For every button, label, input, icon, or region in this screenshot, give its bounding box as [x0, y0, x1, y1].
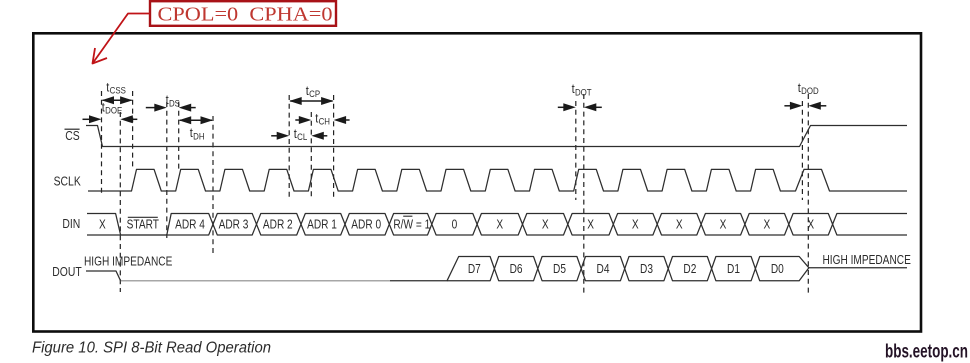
DIN low single line during START (faded in scan)	[121, 234, 167, 236]
timing arrow tDOT left	[558, 106, 566, 108]
svg-text:DS: DS	[169, 98, 180, 109]
DOUT waveform lower trace	[447, 257, 809, 281]
timing arrow tDOD left	[784, 105, 792, 107]
svg-text:D0: D0	[771, 262, 784, 276]
SCLK waveform: 16 clock pulses	[88, 169, 907, 191]
svg-text:R/W = 1: R/W = 1	[393, 217, 430, 231]
svg-text:D5: D5	[553, 262, 566, 276]
dashed marker tDOT left / SCLK rise 11	[575, 101, 577, 200]
svg-text:D7: D7	[468, 262, 481, 276]
svg-text:X: X	[632, 217, 639, 231]
dashed marker tCP left / SCLK fall 4	[288, 95, 290, 197]
timing arrow tDOT right	[594, 106, 602, 108]
dashed marker tCP right / SCLK fall 5	[333, 95, 335, 197]
svg-text:ADR 0: ADR 0	[351, 217, 381, 231]
CS waveform	[86, 126, 907, 147]
svg-text:HIGH IMPEDANCE: HIGH IMPEDANCE	[84, 255, 172, 269]
timing arrow tDS right	[189, 107, 196, 109]
svg-text:bbs.eetop.cn: bbs.eetop.cn	[885, 341, 968, 363]
timing arrow tCL right	[322, 135, 328, 137]
svg-text:START: START	[127, 218, 160, 232]
timing arrow tCH right	[344, 119, 350, 121]
timing arrow tDOD right	[819, 105, 827, 107]
svg-text:ADR 3: ADR 3	[219, 217, 249, 231]
svg-text:CS: CS	[65, 128, 80, 143]
svg-text:HIGH IMPEDANCE: HIGH IMPEDANCE	[823, 253, 911, 267]
svg-text:CSS: CSS	[110, 86, 126, 97]
dashed marker tCSS left / CS fall	[101, 91, 103, 193]
timing arrow tDOE right	[131, 118, 138, 120]
dashed marker tDS left / DIN valid	[166, 102, 168, 238]
svg-text:D4: D4	[597, 262, 610, 276]
timing arrow tCSS	[103, 99, 132, 101]
timing arrow tDH	[180, 119, 212, 121]
svg-text:CP: CP	[309, 89, 320, 100]
timing arrow tCP	[290, 100, 332, 102]
svg-text:X: X	[764, 217, 771, 231]
dashed marker tDOD right / DOUT disable	[807, 94, 809, 293]
dashed marker tDOE right / DOUT enable	[119, 112, 121, 292]
timing arrow tDOE left	[83, 118, 92, 120]
timing arrow tCL left	[271, 135, 279, 137]
svg-text:CL: CL	[297, 132, 307, 143]
outer frame	[33, 33, 921, 331]
svg-text:X: X	[587, 217, 594, 231]
red open arrowhead	[93, 48, 108, 64]
svg-text:CH: CH	[319, 117, 330, 128]
svg-text:DOT: DOT	[575, 87, 592, 98]
svg-text:ADR 1: ADR 1	[307, 217, 337, 231]
svg-text:DOD: DOD	[801, 86, 819, 97]
DIN waveform lower trace	[87, 214, 907, 236]
svg-text:Figure 10. SPI 8-Bit Read Oper: Figure 10. SPI 8-Bit Read Operation	[32, 340, 271, 357]
svg-text:X: X	[676, 217, 683, 231]
dashed marker tCSS right / SCLK rise 1	[132, 91, 134, 170]
svg-text:X: X	[542, 217, 549, 231]
dashed marker tCL right tCH left / SCLK rise 5	[310, 112, 312, 199]
dashed marker tDOD left / SCLK rise 16	[801, 101, 803, 200]
svg-text:ADR 2: ADR 2	[263, 217, 293, 231]
svg-text:D2: D2	[683, 262, 696, 276]
DIN waveform upper trace	[87, 214, 907, 236]
svg-text:DOE: DOE	[105, 106, 122, 117]
svg-text:SCLK: SCLK	[54, 173, 81, 188]
DOUT waveform upper trace	[86, 257, 907, 281]
dashed marker tDOT right / DOUT change	[583, 94, 585, 293]
timing arrow tDS left	[146, 107, 157, 109]
svg-text:X: X	[99, 217, 106, 231]
svg-text:D3: D3	[640, 262, 653, 276]
svg-text:DOUT: DOUT	[52, 264, 81, 279]
svg-text:CPOL=0 CPHA=0: CPOL=0 CPHA=0	[158, 4, 333, 26]
svg-text:X: X	[720, 217, 727, 231]
svg-text:DH: DH	[193, 131, 204, 142]
red callout box CPOL=0 CPHA=0	[150, 1, 336, 26]
dashed marker tDH right / DIN change	[212, 116, 214, 256]
svg-text:ADR 4: ADR 4	[175, 217, 205, 231]
dashed marker tDS right / SCLK rise 2	[178, 102, 180, 170]
DOUT driven-low line (faded in scan)	[121, 280, 390, 282]
svg-text:X: X	[496, 217, 503, 231]
red leader line	[93, 14, 151, 64]
svg-text:X: X	[807, 217, 814, 231]
svg-text:DIN: DIN	[62, 216, 80, 231]
svg-text:0: 0	[452, 217, 458, 231]
timing arrow tCH left	[295, 119, 301, 121]
svg-text:D1: D1	[727, 262, 740, 276]
svg-text:D6: D6	[510, 262, 523, 276]
